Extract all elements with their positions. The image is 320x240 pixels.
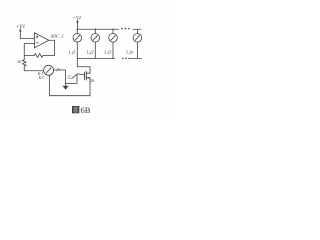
dots ellipsis bottom [122, 58, 130, 60]
wire node J2 down to ground [65, 83, 67, 85]
svg-text:I_f3: I_f3 [103, 49, 112, 54]
switch S (J2 to gate) [72, 74, 78, 79]
wire bus to current source In [136, 29, 138, 33]
svg-text:I_fn: I_fn [125, 49, 134, 54]
wire +V1 to op-amp + input [20, 33, 34, 39]
junction dot bus/branch2 [95, 29, 96, 30]
resistor R1 2k (vertical) [23, 55, 27, 70]
svg-text:2b: 2b [90, 79, 94, 83]
current source In [133, 34, 142, 43]
current source I1 [73, 34, 82, 43]
svg-text:6B: 6B [81, 105, 91, 115]
bottom bus wire right segment [131, 57, 142, 59]
svg-text:K·C: K·C [38, 75, 46, 80]
svg-text:J2: J2 [67, 75, 71, 80]
svg-text:I_f2: I_f2 [86, 49, 95, 54]
wire switch to gate of Q1 [78, 74, 85, 75]
junction dot bus/branch3 [112, 29, 113, 30]
wire current source K right to node J2 [54, 70, 78, 83]
current source I2 [91, 34, 100, 43]
wire bus to current source I3 [112, 29, 114, 33]
current source I3 [109, 34, 118, 43]
svg-text:fsc: fsc [57, 67, 62, 71]
node +V1 pin arrow [19, 28, 21, 33]
bottom bus wire [77, 58, 114, 60]
resistor Rf (feedback) [24, 54, 54, 58]
wire bus to current source I1 [76, 29, 78, 33]
top bus wire right segment [133, 28, 141, 30]
svg-text:2k: 2k [17, 59, 21, 64]
wire I1 down to bottom bus [76, 42, 78, 58]
op-amp U1 (ADC_1) [35, 33, 49, 48]
wire In down to bottom bus [136, 42, 138, 58]
wire source of Q1 down and left to current source K bottom [50, 75, 90, 96]
wire inverting input to feedback left corner [24, 44, 34, 56]
wire 2k to current source K [24, 70, 43, 72]
caption figure glyph (tu) [72, 106, 79, 113]
wire I2 down to bottom bus [94, 42, 96, 58]
transistor Q1 (MOSFET) [84, 72, 90, 80]
ground symbol (bottom center) [63, 86, 69, 90]
wire drain of Q1 up to branch 1 [77, 59, 90, 74]
svg-text:I_f1: I_f1 [68, 49, 76, 54]
wire bus to current source I2 [94, 29, 96, 33]
dots ellipsis top [121, 28, 130, 30]
wire +V2 down to top bus [76, 24, 78, 29]
svg-text:ADC_1: ADC_1 [49, 34, 64, 39]
top bus wire [77, 28, 119, 30]
wire I3 down to bottom bus [112, 42, 114, 58]
junction dot bus/branch1 [77, 29, 78, 30]
current source K (circle with arrow) [44, 65, 54, 75]
node +V2 pin arrow [76, 20, 78, 24]
wire op-amp output down to feedback node [49, 40, 55, 55]
